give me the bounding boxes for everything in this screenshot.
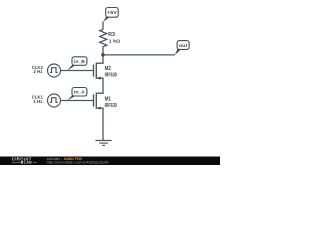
transistor M2 IRF630 <box>94 63 117 80</box>
CLK1 square wave glyph <box>50 98 58 103</box>
M1 channel bar <box>95 93 97 109</box>
out flag <box>175 41 190 56</box>
svg-text:in_B: in_B <box>74 59 85 65</box>
+5V flag box <box>106 8 119 18</box>
in_B flag box <box>72 57 87 66</box>
in_A flag <box>67 88 87 101</box>
svg-text:M1: M1 <box>105 96 111 102</box>
in_B flag <box>67 57 87 71</box>
ground <box>96 141 112 146</box>
svg-text:out: out <box>179 43 188 49</box>
svg-text:IRF630: IRF630 <box>105 103 117 109</box>
M2 source lead <box>96 77 103 80</box>
wire +5V to resistor <box>102 22 104 30</box>
in_B flag tail <box>67 65 76 70</box>
svg-text:+5V: +5V <box>107 10 117 16</box>
M2 body arrow <box>97 77 101 80</box>
M1 body arrow <box>97 107 101 110</box>
clock source CLK2 <box>32 64 61 77</box>
wire junction to out <box>103 54 175 56</box>
M1 gate bar <box>93 94 95 106</box>
out flag tail <box>175 49 182 55</box>
CircuitLab logo <box>12 156 37 164</box>
svg-text:in_A: in_A <box>74 90 85 96</box>
CLK2 circle <box>48 64 61 77</box>
wire CLK1 to M1 gate <box>61 100 94 102</box>
M2 gate bar <box>93 64 95 76</box>
node junction dot <box>101 53 105 57</box>
svg-text:1 kΩ: 1 kΩ <box>109 39 120 45</box>
svg-text:R3: R3 <box>108 32 115 38</box>
in_A flag tail <box>67 96 76 101</box>
svg-text:1 Hz: 1 Hz <box>33 99 43 104</box>
M2 channel bar <box>95 63 97 79</box>
svg-text:LAB: LAB <box>24 161 32 165</box>
wire resistor to M2 drain <box>102 48 104 64</box>
svg-text:http://circuitlab.com/c438rqsc: http://circuitlab.com/c438rqsc6zt9 <box>47 160 109 164</box>
M2 drain lead <box>96 62 103 65</box>
resistor R3 <box>100 29 107 48</box>
transistor M1 IRF630 <box>94 93 117 110</box>
M1 drain lead <box>96 92 103 95</box>
svg-text:IRF630: IRF630 <box>105 73 117 79</box>
wire M2 source to M1 drain <box>102 78 104 93</box>
M1 source lead <box>96 107 103 110</box>
svg-text:2 Hz: 2 Hz <box>33 69 43 74</box>
clock source CLK1 <box>32 94 61 107</box>
wire CLK2 to M2 gate <box>61 70 94 72</box>
in_A flag box <box>72 88 87 97</box>
CLK1 circle <box>48 94 61 107</box>
wire M1 source to ground <box>102 108 104 140</box>
+5V supply flag <box>103 8 118 23</box>
out flag box <box>177 41 189 50</box>
watermark bar <box>0 157 220 166</box>
+5V flag tail <box>103 17 110 22</box>
svg-text:M2: M2 <box>105 66 111 72</box>
CLK2 square wave glyph <box>50 68 58 73</box>
